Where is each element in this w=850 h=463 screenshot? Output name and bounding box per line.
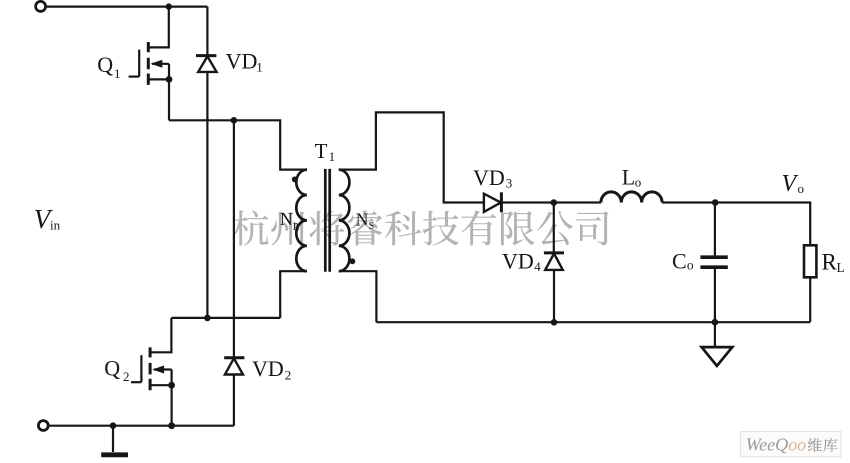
svg-text:VD: VD (502, 249, 534, 274)
node: mid rail / VD2 junction (231, 117, 238, 124)
wire: mid rail to primary top (169, 120, 307, 169)
wire: Q2 drain lead (150, 318, 171, 352)
svg-text:P: P (293, 222, 299, 233)
svg-text:4: 4 (534, 259, 541, 274)
svg-text:o: o (687, 258, 694, 273)
svg-text:1: 1 (256, 60, 263, 75)
capacitor Co (700, 203, 727, 323)
label VD2 (252, 356, 291, 382)
transformer T1 primary winding Np (296, 170, 307, 272)
wire: output bottom rail (376, 321, 810, 323)
wire: Q2 source to bottom rail (171, 385, 173, 426)
wire: VD1 anode down to Q2 drain rail (206, 72, 208, 318)
transformer T1 core (325, 169, 329, 272)
node: bottom rail / ground junction (110, 422, 117, 429)
svg-text:T: T (315, 139, 328, 163)
watermark char 睿 (348, 211, 383, 246)
input terminal (top) (36, 1, 46, 11)
node: bottom rail / Q2 source junction (168, 422, 175, 429)
svg-text:Q: Q (97, 52, 113, 77)
wire: VD3 cathode to Lo (501, 201, 601, 203)
svg-text:VD: VD (252, 356, 284, 381)
svg-text:1: 1 (114, 66, 121, 81)
label Q1 (97, 52, 120, 81)
svg-text:C: C (672, 249, 687, 274)
inductor Lo (601, 192, 662, 203)
label Np (280, 209, 299, 233)
wire: Q1 drain lead (148, 7, 169, 48)
node: Q1 source junction (166, 76, 173, 83)
svg-text:L: L (622, 164, 635, 189)
input terminal (bottom) (38, 421, 48, 431)
svg-text:VD: VD (473, 165, 505, 190)
svg-text:R: R (822, 249, 838, 274)
wire: VD4 anode to bottom rail (553, 270, 555, 322)
resistor RL (804, 245, 816, 322)
node: bottom rail / VD4 junction (551, 319, 558, 326)
svg-text:1: 1 (329, 149, 336, 164)
svg-text:WeeQoo: WeeQoo (746, 434, 806, 454)
label Lo (622, 164, 642, 189)
watermark text 杭州将睿科技有限公司 (233, 210, 609, 245)
svg-text:N: N (280, 209, 293, 229)
svg-text:in: in (50, 217, 61, 232)
label Q2 (104, 356, 129, 385)
wire: VD2 anode to bottom rail (233, 375, 235, 426)
svg-text:L: L (837, 260, 845, 275)
transistor Q1 (129, 42, 169, 85)
svg-text:N: N (356, 210, 369, 230)
wire: VD4 cathode branch (553, 203, 555, 253)
watermark char 有 (461, 210, 496, 245)
svg-text:3: 3 (506, 176, 513, 191)
transformer T1 phase dot (secondary) (350, 258, 356, 264)
watermark char 将 (309, 211, 344, 246)
label T1 (315, 139, 336, 164)
label VD4 (502, 249, 541, 274)
label Ns (356, 210, 374, 232)
diode VD1 (196, 56, 217, 72)
transistor Q2 (131, 347, 172, 390)
label Vin (34, 204, 61, 234)
label Co (672, 249, 694, 274)
wire: Q2 drain rail (171, 317, 280, 319)
svg-text:V: V (782, 171, 799, 197)
wire: secondary bottom lead (339, 271, 377, 322)
watermark char 州 (271, 212, 304, 246)
label RL (822, 249, 845, 275)
ground (output side) (702, 322, 733, 366)
diode VD3 (484, 192, 502, 212)
transformer T1 phase dot (primary) (292, 177, 298, 183)
node: Q2 source junction (168, 382, 175, 389)
watermark char 技 (423, 211, 459, 246)
diode VD4 (544, 253, 564, 270)
wire: Lo to RL top (Vo node) (662, 203, 810, 246)
badge char 维 (808, 438, 822, 452)
node: top rail / Q1 drain junction (166, 3, 172, 9)
svg-text:2: 2 (285, 368, 292, 383)
watermark char 科 (385, 211, 422, 246)
svg-text:S: S (369, 221, 375, 232)
node: Vo / Co junction (712, 199, 719, 206)
label VD1 (226, 49, 263, 75)
wire: top rail (46, 5, 207, 7)
node: bottom rail / Co / ground junction (712, 319, 719, 326)
watermark char 限 (501, 211, 535, 246)
label Vo (782, 171, 805, 197)
node: VD1 anode / Q2 drain rail junction (204, 315, 211, 322)
watermark WeeQoo badge (740, 432, 841, 457)
wire: VD1 cathode branch from top rail (206, 7, 208, 56)
watermark char 杭 (233, 210, 269, 245)
wire: VD2 cathode branch (233, 120, 235, 357)
watermark char 司 (576, 211, 609, 245)
watermark char 公 (537, 211, 573, 245)
wire: secondary top lead to VD3 (339, 112, 484, 202)
node: VD3/VD4 junction (551, 199, 558, 206)
label VD3 (473, 165, 512, 190)
svg-text:o: o (635, 174, 642, 189)
svg-text:Q: Q (104, 356, 120, 381)
svg-text:VD: VD (226, 49, 258, 74)
diode VD2 (224, 358, 244, 375)
wire: primary bottom to Q2 drain rail (280, 271, 307, 318)
ground (input side) (101, 426, 128, 455)
badge char 库 (823, 438, 837, 452)
svg-text:o: o (798, 181, 805, 196)
svg-text:2: 2 (123, 369, 130, 384)
transformer T1 secondary winding Ns (339, 170, 350, 272)
wire: Q1 source to mid rail (168, 79, 170, 120)
wire: bottom rail (49, 425, 234, 427)
